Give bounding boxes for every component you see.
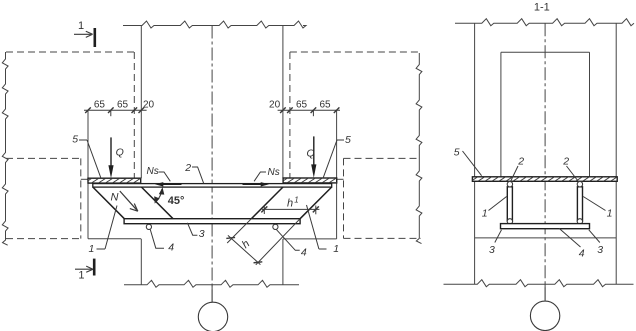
svg-text:1-1: 1-1: [534, 2, 550, 14]
svg-text:Ns: Ns: [268, 167, 280, 178]
svg-text:Ns: Ns: [147, 166, 159, 177]
svg-text:65: 65: [94, 100, 106, 111]
svg-text:1: 1: [78, 20, 84, 32]
svg-text:5: 5: [345, 134, 351, 146]
svg-text:Q: Q: [116, 146, 124, 158]
svg-text:1: 1: [78, 270, 84, 282]
svg-text:20: 20: [269, 100, 281, 111]
svg-text:20: 20: [143, 100, 155, 111]
svg-text:2: 2: [184, 162, 191, 174]
svg-text:3: 3: [489, 244, 495, 256]
svg-text:65: 65: [296, 100, 308, 111]
svg-text:2: 2: [562, 156, 569, 168]
svg-text:1: 1: [294, 195, 298, 204]
svg-text:65: 65: [117, 100, 129, 111]
svg-text:1: 1: [333, 243, 339, 255]
svg-text:5: 5: [72, 134, 78, 146]
svg-text:1: 1: [89, 243, 95, 255]
svg-text:45°: 45°: [168, 195, 185, 207]
svg-text:4: 4: [301, 247, 307, 259]
svg-text:5: 5: [454, 146, 460, 158]
svg-text:1: 1: [482, 208, 488, 220]
svg-text:65: 65: [319, 100, 331, 111]
svg-text:4: 4: [579, 247, 585, 259]
svg-text:Q: Q: [307, 147, 315, 159]
svg-text:2: 2: [517, 156, 524, 168]
svg-text:4: 4: [168, 241, 174, 253]
svg-text:3: 3: [597, 244, 603, 256]
svg-text:h: h: [287, 197, 293, 209]
svg-text:3: 3: [199, 228, 205, 240]
svg-text:N: N: [111, 192, 119, 204]
svg-text:1: 1: [607, 208, 613, 220]
